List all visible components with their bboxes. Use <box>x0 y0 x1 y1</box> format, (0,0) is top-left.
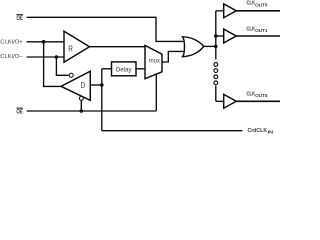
svg-text:CLK: CLK <box>247 27 256 33</box>
wire R output to mux input 1 <box>90 46 146 48</box>
wire OR output to distribution bus <box>204 45 216 47</box>
svg-text:OUT0: OUT0 <box>255 2 268 7</box>
delay block <box>112 62 137 76</box>
overline of bottom OE <box>16 107 23 109</box>
junction dot at D input tap <box>100 83 104 87</box>
wire CLKI/O+ to receiver R <box>27 41 65 43</box>
svg-text:IN: IN <box>268 130 274 135</box>
svg-text:CLKI/O+: CLKI/O+ <box>0 39 22 45</box>
svg-text:CLKI/O−: CLKI/O− <box>0 54 22 60</box>
wire mux output to OR gate lower input <box>162 51 184 62</box>
wire CLKOUT5 <box>236 100 280 102</box>
node CLKI/O+ label <box>0 39 22 45</box>
node CLKOUT5 label <box>247 92 269 99</box>
svg-text:OUT5: OUT5 <box>255 93 268 98</box>
svg-text:OE: OE <box>16 16 22 22</box>
svg-text:mux: mux <box>149 58 161 65</box>
node CLKI/O- label <box>0 54 22 60</box>
wire CLKOUT0 <box>236 10 280 12</box>
node CLKOUT1 label <box>247 27 269 34</box>
svg-text:R: R <box>68 44 73 54</box>
wire distribution bus upper <box>215 11 217 60</box>
junction dot buffer1 input <box>214 34 218 38</box>
wire mux select from bottom OE line <box>155 74 157 111</box>
mux <box>145 45 162 78</box>
ellipsis dots for outputs 2..4 <box>214 63 218 67</box>
wire Delay output to mux input 2 <box>136 68 145 70</box>
wire CrdCLK_IN <box>102 130 243 132</box>
svg-text:OE: OE <box>16 109 22 115</box>
inverting bubble on D top side <box>69 73 73 77</box>
node CLKOUT0 label <box>247 1 269 8</box>
or-gate U1 <box>183 37 204 57</box>
svg-text:CrdCLK: CrdCLK <box>248 128 268 134</box>
buffer U2 (CLKOUT0) <box>224 4 237 18</box>
node OE (top label) <box>16 16 22 22</box>
driver D (points left) <box>61 71 90 100</box>
buffer U4 (CLKOUT5) <box>224 94 237 108</box>
wire from - junction down to driver D inverting bubble <box>56 57 69 75</box>
wire OE bottom to mux select <box>27 110 157 112</box>
wire into Delay block <box>102 68 112 70</box>
wire D input from CrdCLK vertical <box>90 84 102 86</box>
junction dot OR output on bus <box>214 45 218 49</box>
wire OE top: right then down to OR gate top input <box>27 17 184 41</box>
svg-text:CLK: CLK <box>247 92 256 98</box>
node CrdCLK_IN label <box>248 128 274 135</box>
svg-text:Delay: Delay <box>116 66 132 73</box>
svg-text:OUT1: OUT1 <box>255 28 268 33</box>
wire distribution bus lower <box>215 86 217 102</box>
svg-text:D: D <box>81 81 86 90</box>
receiver R <box>64 31 90 62</box>
wire buffer1 input <box>216 35 224 37</box>
buffer U3 (CLKOUT1) <box>224 29 237 43</box>
wire CLKOUT1 <box>236 35 280 37</box>
junction dot on CLKI/O+ <box>42 40 46 44</box>
wire CrdCLK vertical (delay input down to bottom wire) <box>101 69 103 131</box>
wire D enable bubble down to OE line <box>80 100 82 111</box>
wire from + junction down to driver D output tip <box>44 42 61 87</box>
wire buffer0 input <box>216 10 224 12</box>
node OE (bottom label) <box>16 109 22 115</box>
junction dot on bottom OE line <box>80 109 84 113</box>
svg-text:CLK: CLK <box>247 1 256 7</box>
junction dot on CLKI/O- <box>55 55 59 59</box>
wire CLKI/O- to receiver R <box>27 56 65 58</box>
enable bubble on D bottom edge <box>79 96 83 100</box>
wire buffer5 input <box>216 100 224 102</box>
overline of top OE <box>16 14 23 16</box>
